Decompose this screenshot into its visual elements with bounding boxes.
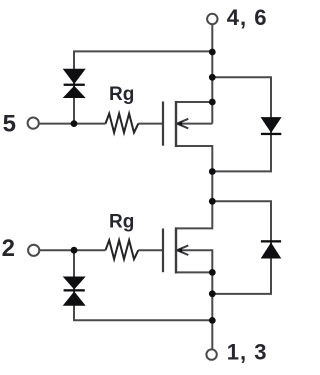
svg-text:Rg: Rg xyxy=(109,84,134,105)
svg-text:5: 5 xyxy=(3,111,16,138)
svg-text:4, 6: 4, 6 xyxy=(227,5,268,30)
svg-text:2: 2 xyxy=(2,235,15,262)
svg-text:1, 3: 1, 3 xyxy=(227,340,268,365)
svg-text:Rg: Rg xyxy=(109,212,134,233)
